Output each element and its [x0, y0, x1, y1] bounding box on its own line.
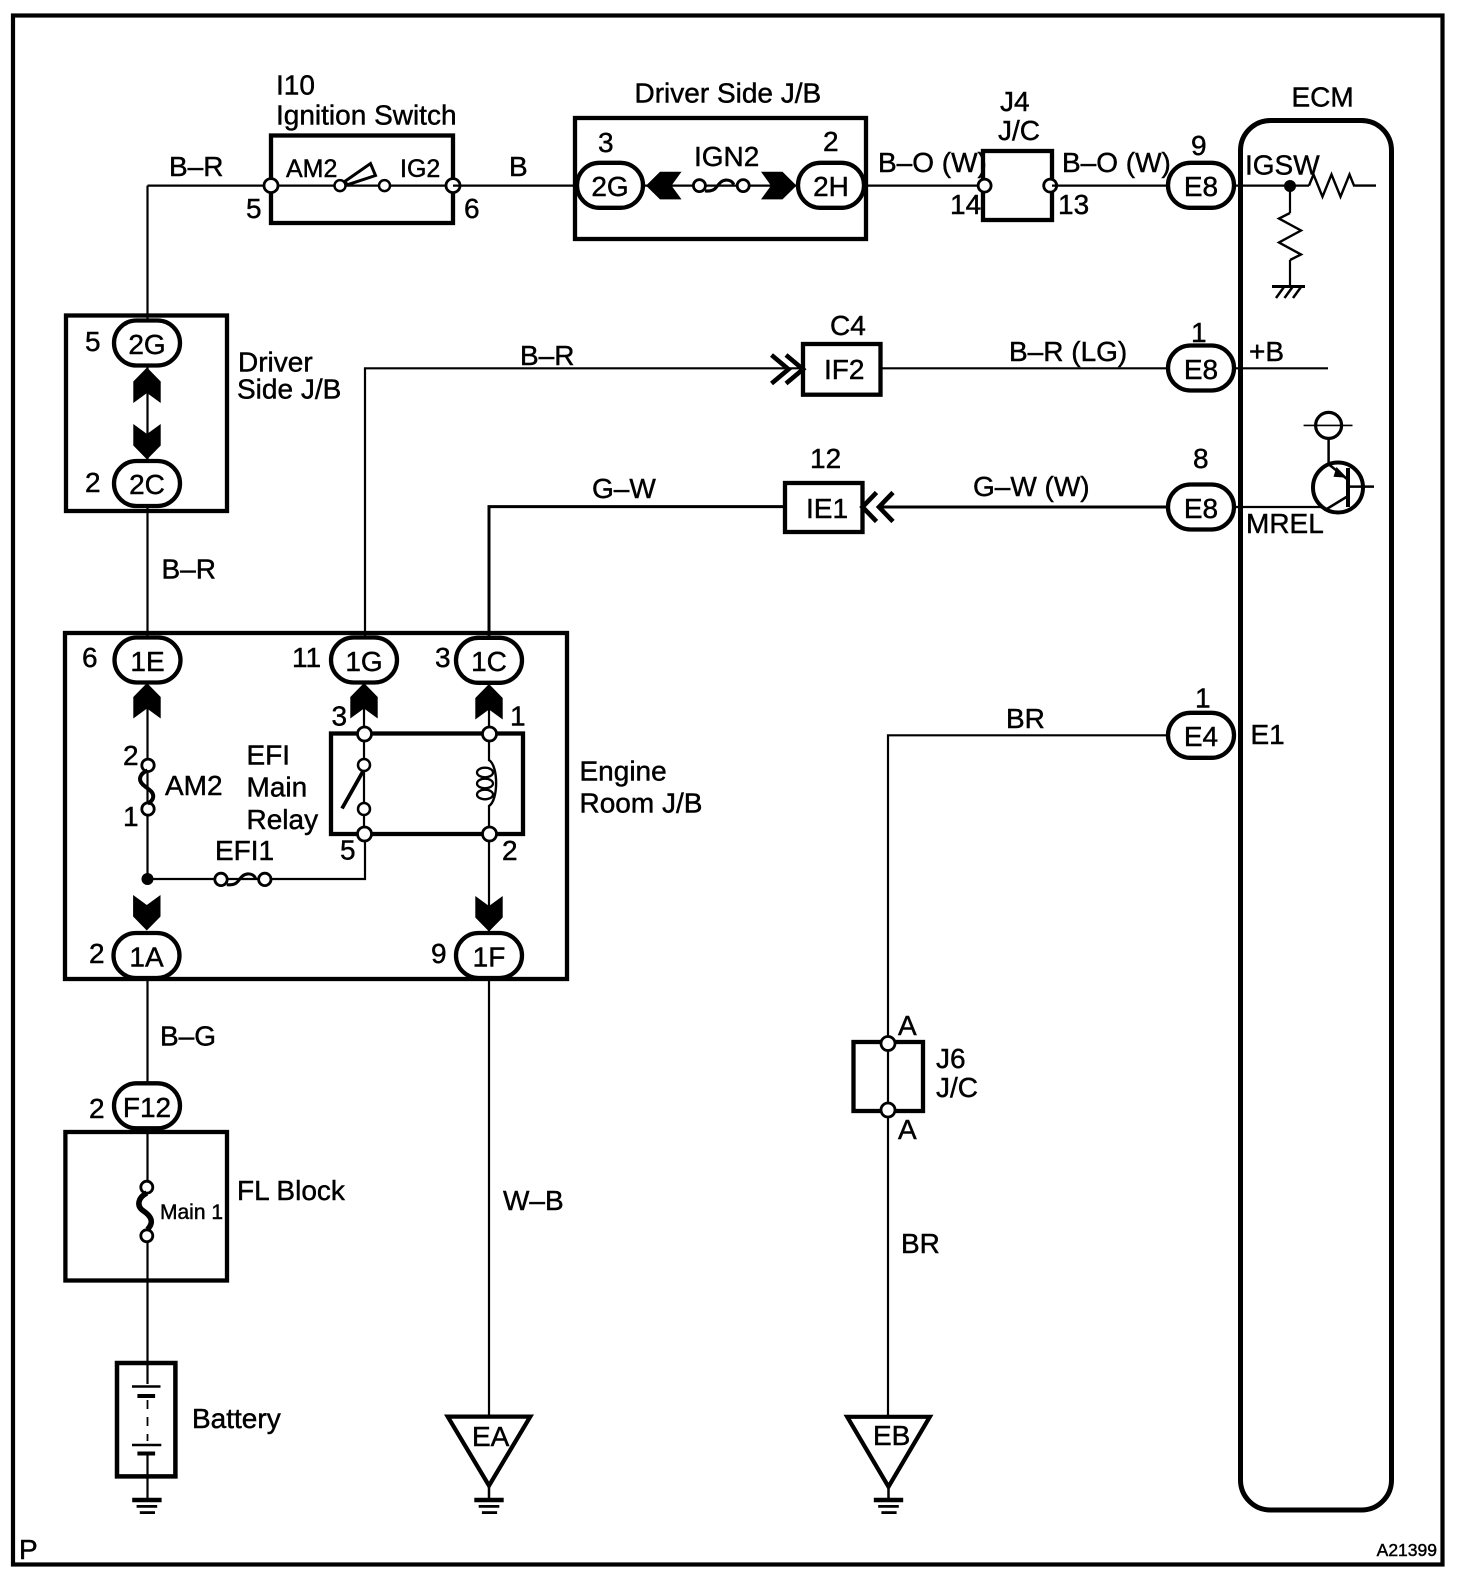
ground symbol below EB — [874, 1487, 903, 1513]
connector 1G of Engine Room J/B — [331, 638, 397, 683]
svg-text:6: 6 — [82, 642, 98, 673]
svg-text:2H: 2H — [813, 171, 849, 202]
relay terminal 1 — [483, 727, 497, 741]
svg-text:Room J/B: Room J/B — [580, 788, 703, 819]
connector E8 pin 8 — [1168, 485, 1234, 530]
svg-text:P: P — [19, 1534, 38, 1565]
junction block connector C4 / IF2 — [803, 344, 881, 395]
switch contact IG2 — [379, 180, 390, 191]
svg-text:Side J/B: Side J/B — [237, 374, 341, 405]
resistor R1 (IGSW series) — [1309, 175, 1376, 197]
svg-text:B–R: B–R — [162, 554, 216, 585]
svg-text:Relay: Relay — [247, 804, 319, 835]
svg-text:2G: 2G — [128, 329, 165, 360]
connector E8 pin 9 — [1168, 163, 1234, 208]
svg-text:E8: E8 — [1184, 171, 1218, 202]
wire B-R from ignition switch to corner — [148, 185, 272, 187]
svg-text:EFI1: EFI1 — [215, 835, 274, 866]
wire B-O (W) right of J4 — [1052, 185, 1167, 187]
svg-text:A: A — [898, 1114, 917, 1145]
power source symbol B+ — [1304, 412, 1353, 438]
connector 1F of Engine Room J/B — [456, 933, 522, 978]
svg-text:ECM: ECM — [1292, 82, 1354, 113]
connector 2C of left J/B — [114, 461, 180, 506]
svg-text:Main 1: Main 1 — [160, 1201, 223, 1224]
fusible link Main 1 — [139, 1181, 153, 1242]
svg-text:Driver Side J/B: Driver Side J/B — [635, 78, 822, 109]
svg-text:FL Block: FL Block — [237, 1175, 346, 1206]
wire through J6 — [887, 1050, 889, 1103]
battery BAT — [117, 1363, 175, 1498]
connector 2H of top J/B — [798, 163, 864, 208]
arrow above connector 1F — [475, 896, 502, 932]
svg-text:5: 5 — [246, 193, 262, 224]
svg-text:2: 2 — [123, 740, 139, 771]
svg-text:IF2: IF2 — [824, 354, 864, 385]
arrow into connector 2H — [761, 172, 797, 200]
svg-text:AM2: AM2 — [165, 770, 223, 801]
arrow below connector 2G — [133, 368, 160, 404]
fuse AM2 — [140, 759, 154, 815]
svg-text:IGN2: IGN2 — [694, 141, 759, 172]
svg-text:B–R: B–R — [169, 151, 223, 182]
svg-text:BR: BR — [1006, 703, 1045, 734]
wire 1E down to junction — [146, 660, 148, 879]
svg-text:A21399: A21399 — [1377, 1540, 1437, 1560]
svg-text:1: 1 — [123, 801, 139, 832]
svg-text:2G: 2G — [591, 171, 628, 202]
svg-text:J4: J4 — [1000, 86, 1030, 117]
terminal 5 of I10 — [264, 179, 278, 193]
wire to battery — [146, 1241, 148, 1363]
svg-text:1C: 1C — [471, 646, 507, 677]
svg-text:A: A — [898, 1010, 917, 1041]
wire from junction to relay pin 5 — [148, 834, 366, 879]
svg-text:3: 3 — [435, 642, 451, 673]
resistor R2 (pull-down) — [1279, 213, 1301, 260]
terminal 14 of J4 — [978, 179, 991, 192]
svg-text:F12: F12 — [123, 1092, 171, 1123]
connector 1A of Engine Room J/B — [114, 933, 180, 978]
IGSW pin wire inside ECM — [1236, 185, 1309, 187]
junction node dot — [142, 873, 154, 885]
svg-text:E4: E4 — [1184, 721, 1218, 752]
svg-text:B: B — [509, 151, 528, 182]
wire B-O (W) left of J4 — [866, 185, 984, 187]
svg-text:1: 1 — [1191, 317, 1207, 348]
svg-text:3: 3 — [332, 701, 348, 732]
svg-text:EA: EA — [472, 1421, 510, 1452]
svg-text:EB: EB — [873, 1420, 910, 1451]
svg-text:I10: I10 — [276, 70, 315, 101]
svg-text:IG2: IG2 — [400, 155, 440, 183]
svg-text:BR: BR — [901, 1228, 940, 1259]
svg-text:B–G: B–G — [160, 1021, 216, 1052]
wire B from switch to J/B — [453, 185, 576, 187]
wire from source to transistor — [1327, 438, 1330, 463]
svg-text:1: 1 — [510, 701, 526, 732]
svg-text:B–R: B–R — [520, 340, 574, 371]
arrow below connector 1E — [133, 683, 160, 719]
arrows into C4 — [772, 355, 804, 384]
svg-text:14: 14 — [950, 189, 981, 220]
fuse EFI1 — [215, 873, 271, 885]
svg-text:Engine: Engine — [580, 756, 667, 787]
svg-text:13: 13 — [1058, 189, 1089, 220]
svg-text:+B: +B — [1249, 336, 1284, 367]
wire from node down — [1289, 186, 1291, 213]
svg-text:C4: C4 — [830, 310, 866, 341]
+B pin wire inside ECM — [1236, 367, 1328, 369]
svg-text:Battery: Battery — [192, 1403, 281, 1434]
wire B-G from 1A to F12 — [146, 979, 148, 1082]
wire B-R from 1G up and right to C4 — [365, 368, 803, 638]
ground symbol below EA — [474, 1486, 503, 1513]
svg-text:2C: 2C — [129, 469, 165, 500]
connector 2G of top J/B — [577, 163, 643, 208]
svg-text:B–O (W): B–O (W) — [878, 147, 987, 178]
ground symbol below battery — [132, 1500, 161, 1513]
svg-text:MREL: MREL — [1246, 508, 1324, 539]
ignition switch I10 box — [271, 136, 453, 224]
svg-text:G–W: G–W — [592, 473, 656, 504]
arrow below connector 1G — [350, 683, 377, 719]
svg-text:11: 11 — [292, 642, 321, 673]
connector 2G of left J/B — [114, 321, 180, 366]
wire inside top J/B — [644, 185, 797, 187]
switch contact AM2 — [335, 180, 346, 191]
svg-text:6: 6 — [464, 193, 480, 224]
wire BR from J6 down to EB — [887, 1117, 889, 1417]
svg-text:1E: 1E — [130, 646, 164, 677]
svg-text:Main: Main — [247, 772, 308, 803]
junction connector J4 J/C box — [983, 151, 1052, 220]
connector F12 — [114, 1083, 180, 1128]
relay terminal 3 — [358, 727, 372, 741]
wire BR from J6 up and right to E4 — [888, 735, 1167, 1036]
svg-text:B–O (W): B–O (W) — [1062, 147, 1171, 178]
relay switch contact lower — [358, 803, 370, 815]
arrow into connector 2G — [646, 172, 682, 200]
svg-text:G–W (W): G–W (W) — [973, 471, 1090, 502]
svg-text:IE1: IE1 — [806, 493, 848, 524]
svg-text:12: 12 — [810, 443, 841, 474]
svg-text:3: 3 — [598, 127, 614, 158]
wire down to connector 2G — [146, 186, 148, 320]
wire G-W from 1C up and right to IE1 — [489, 507, 785, 638]
MREL pin wire inside ECM — [1236, 506, 1327, 508]
svg-text:2: 2 — [89, 938, 105, 969]
svg-text:2: 2 — [823, 126, 839, 157]
ECM box — [1241, 121, 1392, 1511]
ground point EA — [448, 1417, 531, 1486]
svg-text:1F: 1F — [473, 942, 506, 973]
svg-text:8: 8 — [1193, 443, 1209, 474]
arrow above connector 2C — [133, 424, 160, 460]
wire coil to 1F — [488, 805, 490, 931]
relay coil L1 — [477, 760, 496, 806]
svg-text:9: 9 — [431, 938, 447, 969]
svg-text:2: 2 — [85, 467, 101, 498]
relay switch blade — [342, 763, 368, 809]
arrow above connector 1A — [133, 895, 160, 931]
wire between 2G and 2C — [146, 343, 148, 483]
svg-text:1G: 1G — [345, 646, 382, 677]
relay terminal 5 — [358, 827, 372, 841]
EFI Main Relay box — [331, 734, 523, 835]
connector E8 pin 1 — [1168, 346, 1234, 391]
arrow below connector 1C — [475, 684, 502, 720]
wire B-R (LG) to E8 — [881, 367, 1168, 369]
switch lever SW1 — [344, 164, 376, 185]
svg-text:Ignition Switch: Ignition Switch — [276, 100, 457, 131]
svg-text:AM2: AM2 — [286, 155, 337, 183]
FL Block box — [65, 1132, 227, 1281]
junction block connector 12 / IE1 — [785, 483, 863, 532]
svg-text:IGSW: IGSW — [1245, 150, 1320, 181]
terminal A top of J6 — [881, 1037, 895, 1051]
svg-text:E1: E1 — [1251, 719, 1285, 750]
Driver Side J/B box (left) — [66, 316, 227, 512]
Driver Side J/B box (top) — [575, 118, 866, 239]
wire 1G down through relay switch — [363, 660, 365, 834]
svg-text:EFI: EFI — [247, 740, 291, 771]
wire to chassis ground — [1289, 260, 1291, 285]
svg-text:1A: 1A — [129, 942, 164, 973]
svg-text:5: 5 — [340, 835, 356, 866]
svg-text:2: 2 — [502, 835, 518, 866]
wire G-W (W) from E8 to IE1 — [879, 506, 1167, 509]
svg-text:W–B: W–B — [503, 1185, 564, 1216]
terminal 13 of J4 — [1044, 179, 1057, 192]
svg-text:J/C: J/C — [998, 115, 1040, 146]
svg-text:J6: J6 — [936, 1043, 966, 1074]
node junction dot — [1284, 180, 1296, 192]
terminal 6 of I10 — [446, 179, 460, 193]
relay switch contact upper — [358, 759, 370, 771]
junction connector J6 J/C box — [854, 1042, 924, 1111]
arrows into IE1 — [863, 493, 894, 522]
fuse IGN2 — [693, 180, 749, 192]
svg-text:9: 9 — [1191, 130, 1207, 161]
connector E4 pin 1 — [1168, 713, 1234, 758]
svg-text:J/C: J/C — [936, 1072, 978, 1103]
connector 1E of Engine Room J/B — [115, 638, 181, 683]
wire into fusible link — [146, 1129, 148, 1182]
relay terminal 2 — [483, 827, 497, 841]
svg-text:1: 1 — [1195, 683, 1211, 714]
wire through ignition switch — [271, 185, 453, 187]
svg-text:E8: E8 — [1184, 493, 1218, 524]
terminal A bottom of J6 — [881, 1103, 895, 1117]
wire W-B from 1F to EA — [488, 978, 490, 1417]
svg-text:B–R (LG): B–R (LG) — [1009, 336, 1127, 367]
chassis ground — [1272, 287, 1305, 299]
wire B-R from 2C to 1E — [146, 506, 148, 638]
svg-text:5: 5 — [85, 326, 101, 357]
transistor Q1 (MREL driver) — [1313, 463, 1374, 513]
svg-text:E8: E8 — [1184, 354, 1218, 385]
wire 1C down to coil — [488, 660, 490, 761]
svg-text:2: 2 — [89, 1093, 105, 1124]
ground point EB — [847, 1417, 930, 1487]
connector 1C of Engine Room J/B — [456, 638, 522, 683]
Engine Room J/B box — [65, 633, 567, 979]
